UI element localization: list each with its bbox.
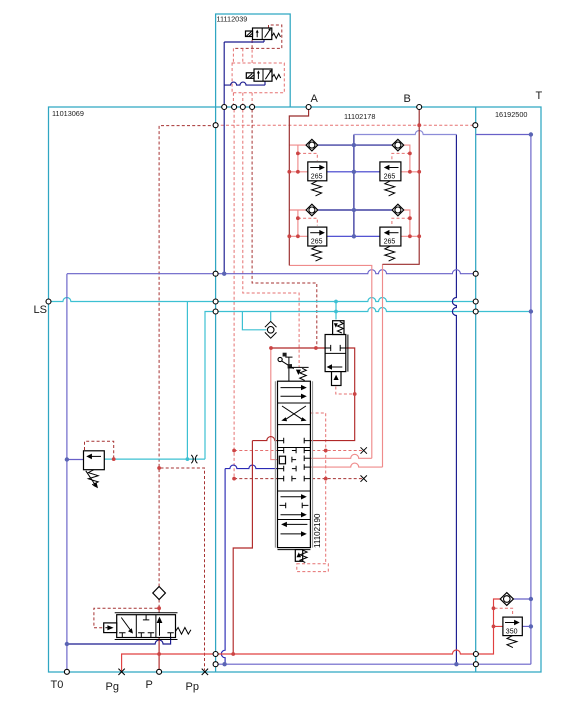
wire work line B bbox=[310, 264, 382, 467]
wire work line A bbox=[289, 265, 372, 458]
wire LS2 to shuttle left bbox=[242, 312, 266, 330]
shuttle valve SH bbox=[265, 321, 277, 338]
relief valve RV3 265 bbox=[308, 227, 327, 261]
svg-text:16192500: 16192500 bbox=[495, 110, 527, 119]
spool bottom dashed box bbox=[297, 564, 329, 572]
relief RV4 pilot dashed bbox=[392, 218, 410, 225]
wire B-side quad 2 bbox=[401, 145, 419, 172]
enclosure 16192500 divider bbox=[475, 107, 477, 672]
LS drop x=187.4 bbox=[186, 302, 188, 460]
left relief valve pilot dashed box bbox=[85, 441, 114, 457]
wire check row 2 bbox=[318, 209, 392, 211]
pilot dashed vertical from port circle x=234 bbox=[233, 110, 235, 479]
relief RV2 pilot dashed bbox=[392, 153, 410, 160]
wire navy x=456 tank drop bbox=[452, 135, 456, 665]
wire shuttle to spool inlet bbox=[271, 348, 281, 460]
orifice feed wire bbox=[104, 458, 205, 460]
compensator CP bbox=[325, 321, 348, 386]
wire spool feed left dark red bbox=[233, 437, 278, 654]
svg-text:P: P bbox=[146, 679, 153, 691]
pilot dashed dark from port circle x=252 to compensator inlet bbox=[252, 110, 317, 347]
svg-text:LS: LS bbox=[34, 304, 47, 316]
wire compensator row dark red bbox=[271, 348, 355, 441]
svg-text:265: 265 bbox=[311, 173, 323, 180]
wire violet bus y=664.2 bbox=[216, 663, 531, 665]
svg-text:Pg: Pg bbox=[106, 681, 119, 693]
solenoid valve V2 bbox=[246, 69, 280, 81]
pilot dashed dark branch to plug x (y=478.6) bbox=[234, 478, 362, 480]
svg-text:A: A bbox=[311, 93, 319, 105]
check valve CV2 bbox=[392, 139, 404, 151]
orifice O1 bbox=[191, 455, 197, 463]
compensator drain dashed bbox=[336, 387, 355, 395]
wire A-side quad 3 bbox=[289, 210, 309, 236]
wire T header right box bbox=[476, 135, 531, 665]
svg-text:T0: T0 bbox=[51, 679, 64, 691]
relief RV3 pilot dashed bbox=[298, 218, 317, 225]
svg-text:11102178: 11102178 bbox=[344, 112, 375, 121]
relief valve RV4 265 bbox=[380, 227, 401, 261]
plug X work port 1 bbox=[361, 447, 367, 453]
pilot dashed line Pp to B (y=125) bbox=[216, 124, 476, 126]
wire solenoid valve V1 outlet bbox=[224, 40, 264, 108]
port circles on borders bbox=[46, 105, 478, 675]
wire T0 vertical left bbox=[66, 274, 68, 672]
plug X work port 2 bbox=[361, 475, 367, 481]
wire navy bottom to pilot valve bbox=[67, 638, 171, 645]
svg-text:Pp: Pp bbox=[186, 681, 199, 693]
svg-text:T: T bbox=[536, 90, 543, 102]
relief valve R350 bbox=[503, 617, 522, 648]
main spool valve MS 11102190 bbox=[275, 353, 322, 563]
svg-text:B: B bbox=[404, 93, 411, 105]
junction dots blue bbox=[65, 132, 533, 666]
wire navy x=224 top bbox=[223, 107, 225, 274]
wire pressure bus red bbox=[122, 599, 504, 672]
wire relief350 outlet bbox=[522, 625, 531, 627]
wire port P red bbox=[158, 638, 160, 672]
spool pilot dashed vertical right side bbox=[310, 413, 325, 564]
check valve CV1 bbox=[306, 139, 318, 151]
pilot dashed dark Pp branch bbox=[161, 468, 205, 670]
wire B-side quad 4 bbox=[401, 210, 419, 236]
relief RV1 pilot dashed bbox=[298, 153, 317, 160]
svg-text:265: 265 bbox=[384, 239, 396, 246]
dashed drop legs to top border circles bbox=[233, 48, 252, 105]
relief 350 pilot dashed bbox=[495, 608, 513, 616]
wire left relief inlet bbox=[67, 459, 85, 461]
wire LS to compensator spring bbox=[335, 302, 337, 320]
tank line vertical x=215.6 bbox=[215, 107, 217, 672]
svg-text:11102190: 11102190 bbox=[313, 513, 322, 548]
svg-text:265: 265 bbox=[311, 239, 323, 246]
wire relief row 2 bbox=[327, 235, 380, 237]
pilot operated valve PV bbox=[104, 613, 191, 640]
svg-text:350: 350 bbox=[506, 628, 518, 635]
pilot dashed vertical from port circle x=242.8 to spool top bbox=[243, 110, 299, 368]
plug X port Pp bbox=[202, 669, 208, 675]
wire port B maroon bbox=[383, 107, 420, 264]
check valve CK350 bbox=[500, 593, 513, 606]
wire relief row 1 bbox=[327, 171, 380, 173]
LS line 2 bbox=[205, 308, 531, 460]
wire check350 outlet bbox=[513, 598, 531, 600]
solenoid valve V2 dashed enclosure bbox=[232, 63, 284, 93]
junction dots cyan bbox=[186, 300, 338, 461]
svg-text:11112039: 11112039 bbox=[217, 15, 248, 24]
check valve CKP bbox=[153, 587, 166, 600]
pilot dashed dark from P check line up-left corner bbox=[159, 126, 214, 587]
wire center vertical of valve block bbox=[353, 135, 355, 237]
check valve CV3 bbox=[306, 204, 318, 216]
svg-text:11013069: 11013069 bbox=[52, 109, 84, 118]
wire tank return of spool bbox=[221, 465, 278, 664]
enclosure 11013069 outer border bbox=[49, 107, 542, 672]
LS line 1 bbox=[49, 298, 476, 302]
check valve CV4 bbox=[392, 204, 404, 216]
left relief valve LR bbox=[84, 451, 105, 488]
wire A-side quad 1 bbox=[289, 145, 309, 172]
wire light violet header bbox=[354, 131, 457, 135]
pilot valve dashed box bottom left bbox=[94, 608, 158, 628]
wire violet bus y=273.7 bbox=[67, 270, 476, 274]
wire check row 1 bbox=[318, 144, 392, 146]
relief valve RV2 265 bbox=[380, 162, 401, 196]
enclosure 11112039 box bbox=[216, 14, 291, 107]
solenoid valve V1 dashed enclosure bbox=[233, 25, 281, 48]
wire solenoid valve V2 outlet bbox=[224, 81, 265, 85]
wire LS2 to shuttle top bbox=[270, 312, 272, 322]
pilot dashed branch to plug x (y=450.5) bbox=[234, 450, 362, 452]
svg-text:265: 265 bbox=[384, 173, 396, 180]
wire port A maroon bbox=[289, 107, 308, 265]
relief valve RV1 265 bbox=[308, 162, 327, 196]
solenoid valve V1 bbox=[246, 28, 281, 40]
junction dots red bbox=[112, 123, 496, 656]
plug X port Pg bbox=[118, 669, 124, 675]
